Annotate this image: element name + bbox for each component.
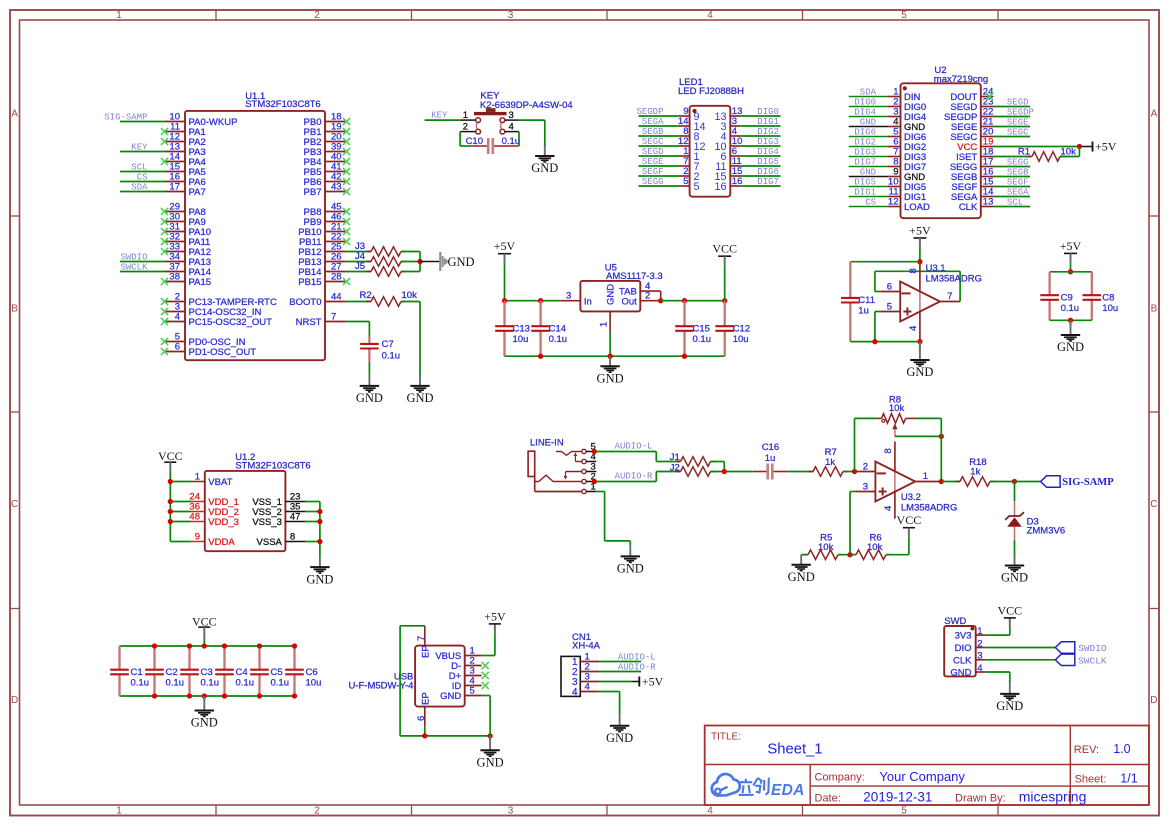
- svg-text:2: 2: [645, 290, 650, 301]
- svg-text:4: 4: [509, 122, 514, 133]
- svg-text:PB15: PB15: [298, 277, 321, 288]
- svg-text:C16: C16: [762, 442, 779, 453]
- svg-text:GND: GND: [606, 731, 633, 745]
- svg-text:SEGA: SEGA: [1007, 187, 1029, 197]
- svg-text:1: 1: [116, 10, 122, 21]
- svg-text:SEGC: SEGC: [1007, 127, 1029, 137]
- svg-text:U-F-M5DW-Y-4: U-F-M5DW-Y-4: [348, 681, 413, 692]
- svg-text:AUDIO-L: AUDIO-L: [615, 442, 653, 452]
- svg-text:VSS_3: VSS_3: [252, 517, 282, 528]
- svg-text:DIG6: DIG6: [757, 167, 779, 177]
- svg-text:7: 7: [947, 291, 952, 302]
- svg-text:SEGF: SEGF: [642, 167, 664, 177]
- svg-text:GND: GND: [950, 668, 971, 679]
- svg-text:GND: GND: [788, 570, 815, 584]
- svg-text:8: 8: [908, 268, 919, 273]
- svg-text:SEGC: SEGC: [642, 137, 664, 147]
- svg-text:D: D: [1150, 695, 1157, 706]
- svg-text:EP: EP: [421, 692, 432, 705]
- svg-text:STM32F103C8T6: STM32F103C8T6: [245, 99, 321, 110]
- svg-text:6: 6: [175, 342, 180, 353]
- svg-text:GND: GND: [448, 255, 475, 269]
- svg-text:6: 6: [416, 716, 427, 721]
- svg-text:DIG0: DIG0: [854, 97, 876, 107]
- svg-text:GND: GND: [531, 161, 558, 175]
- svg-text:GND: GND: [406, 391, 433, 405]
- svg-text:5: 5: [694, 181, 700, 193]
- svg-text:2019-12-31: 2019-12-31: [863, 790, 932, 805]
- svg-text:10k: 10k: [402, 290, 418, 301]
- svg-text:AUDIO-R: AUDIO-R: [615, 472, 653, 482]
- svg-text:3: 3: [977, 651, 982, 662]
- svg-text:PA7: PA7: [189, 187, 206, 198]
- svg-text:CS: CS: [137, 172, 148, 182]
- svg-text:GND: GND: [356, 391, 383, 405]
- svg-text:SEGD: SEGD: [1007, 97, 1029, 107]
- svg-text:CLK: CLK: [959, 202, 978, 213]
- svg-text:3: 3: [509, 110, 514, 121]
- svg-text:GND: GND: [597, 371, 624, 385]
- svg-text:GND: GND: [860, 167, 876, 177]
- svg-text:5: 5: [887, 301, 892, 312]
- svg-text:1/1: 1/1: [1120, 772, 1137, 786]
- svg-text:SDA: SDA: [131, 182, 148, 192]
- svg-text:SEGDP: SEGDP: [1007, 107, 1034, 117]
- svg-text:43: 43: [331, 182, 342, 193]
- svg-text:Drawn By:: Drawn By:: [955, 793, 1006, 805]
- svg-text:SEGF: SEGF: [1007, 177, 1029, 187]
- svg-text:DIG1: DIG1: [757, 117, 779, 127]
- svg-text:0.1u: 0.1u: [236, 677, 255, 688]
- svg-text:1: 1: [116, 806, 122, 817]
- svg-text:0.1u: 0.1u: [166, 677, 185, 688]
- svg-text:0.1u: 0.1u: [201, 677, 220, 688]
- svg-text:10u: 10u: [513, 334, 529, 345]
- svg-text:5: 5: [470, 686, 475, 697]
- svg-text:Sheet_1: Sheet_1: [767, 742, 822, 758]
- svg-text:DIG4: DIG4: [854, 107, 876, 117]
- svg-text:PA15: PA15: [189, 277, 212, 288]
- svg-text:GND: GND: [617, 562, 644, 576]
- svg-text:TITLE:: TITLE:: [711, 732, 741, 743]
- svg-text:4: 4: [572, 687, 578, 698]
- svg-text:SWDIO: SWDIO: [120, 252, 147, 262]
- svg-text:LM358ADRG: LM358ADRG: [926, 273, 983, 284]
- svg-text:DIG3: DIG3: [854, 147, 876, 157]
- svg-text:17: 17: [169, 182, 180, 193]
- svg-text:NRST: NRST: [296, 317, 322, 328]
- svg-text:AMS1117-3.3: AMS1117-3.3: [606, 271, 663, 282]
- svg-text:DIG3: DIG3: [757, 137, 779, 147]
- svg-text:13: 13: [983, 197, 994, 208]
- svg-text:0.1u: 0.1u: [1061, 303, 1080, 314]
- svg-text:4: 4: [977, 663, 982, 674]
- svg-text:A: A: [1151, 109, 1158, 120]
- svg-text:DIO: DIO: [955, 643, 972, 654]
- svg-text:SEGE: SEGE: [642, 157, 664, 167]
- svg-text:4: 4: [175, 312, 180, 323]
- svg-text:1: 1: [195, 472, 200, 483]
- svg-text:+5V: +5V: [1095, 140, 1117, 154]
- svg-text:4: 4: [908, 326, 919, 331]
- svg-text:VCC: VCC: [158, 449, 183, 463]
- svg-text:5: 5: [683, 176, 688, 187]
- svg-text:SEGB: SEGB: [642, 127, 664, 137]
- svg-text:4: 4: [883, 506, 894, 511]
- svg-text:4: 4: [585, 682, 590, 693]
- svg-text:AUDIO-R: AUDIO-R: [618, 662, 656, 672]
- svg-text:8: 8: [883, 448, 894, 453]
- svg-text:SWDIO: SWDIO: [1078, 643, 1107, 654]
- svg-text:STM32F103C8T6: STM32F103C8T6: [235, 460, 311, 471]
- svg-text:PC15-OSC32_OUT: PC15-OSC32_OUT: [189, 317, 273, 328]
- svg-text:D: D: [11, 695, 18, 706]
- svg-text:1k: 1k: [970, 466, 980, 477]
- svg-text:0.1u: 0.1u: [382, 350, 401, 361]
- svg-text:GND: GND: [1057, 340, 1084, 354]
- svg-text:SEGD: SEGD: [642, 147, 664, 157]
- svg-text:DIG7: DIG7: [854, 157, 876, 167]
- svg-text:SEGG: SEGG: [642, 177, 664, 187]
- svg-text:SWCLK: SWCLK: [120, 262, 148, 272]
- svg-text:C10: C10: [466, 136, 483, 147]
- svg-text:KEY: KEY: [431, 110, 448, 120]
- svg-text:16: 16: [714, 181, 726, 193]
- svg-text:47: 47: [290, 512, 301, 523]
- svg-text:16: 16: [732, 176, 743, 187]
- svg-text:10u: 10u: [1102, 303, 1118, 314]
- svg-text:2: 2: [977, 638, 982, 649]
- svg-text:3: 3: [508, 806, 514, 817]
- svg-text:Date:: Date:: [815, 793, 841, 805]
- svg-text:SEGE: SEGE: [1007, 117, 1029, 127]
- svg-text:5: 5: [901, 806, 907, 817]
- svg-text:+5V: +5V: [494, 239, 516, 253]
- svg-text:+5V: +5V: [642, 675, 664, 689]
- svg-text:5: 5: [901, 10, 907, 21]
- svg-text:DIG0: DIG0: [757, 107, 779, 117]
- svg-text:DIG2: DIG2: [757, 127, 779, 137]
- svg-text:1: 1: [599, 322, 610, 327]
- svg-text:A: A: [11, 109, 18, 120]
- svg-text:38: 38: [169, 272, 180, 283]
- svg-text:VCC: VCC: [997, 604, 1022, 618]
- svg-text:AUDIO-L: AUDIO-L: [618, 652, 656, 662]
- svg-text:VSSA: VSSA: [257, 537, 283, 548]
- svg-text:J5: J5: [355, 261, 365, 272]
- svg-text:DIG2: DIG2: [854, 137, 876, 147]
- svg-text:DIG1: DIG1: [854, 187, 876, 197]
- svg-text:8: 8: [290, 532, 295, 543]
- svg-text:ZMM3V6: ZMM3V6: [1027, 526, 1066, 537]
- svg-text:GND: GND: [477, 756, 504, 770]
- svg-text:SEGA: SEGA: [642, 117, 664, 127]
- svg-text:KEY: KEY: [131, 142, 148, 152]
- svg-text:C: C: [1150, 499, 1157, 510]
- svg-text:C7: C7: [382, 339, 394, 350]
- svg-text:PB7: PB7: [304, 187, 322, 198]
- svg-text:SEGG: SEGG: [1007, 157, 1029, 167]
- svg-text:1: 1: [463, 110, 468, 121]
- svg-text:DIG5: DIG5: [854, 177, 876, 187]
- svg-text:3: 3: [566, 290, 571, 301]
- svg-text:SCL: SCL: [1007, 197, 1023, 207]
- svg-text:Company:: Company:: [815, 771, 865, 783]
- svg-text:C: C: [11, 499, 18, 510]
- svg-text:LED FJ2088BH: LED FJ2088BH: [678, 86, 744, 97]
- svg-text:3: 3: [508, 10, 514, 21]
- svg-text:SEGDP: SEGDP: [636, 107, 663, 117]
- svg-text:1k: 1k: [825, 457, 835, 468]
- svg-text:4: 4: [707, 10, 713, 21]
- svg-text:44: 44: [331, 292, 342, 303]
- svg-text:1u: 1u: [765, 453, 776, 464]
- svg-text:GND: GND: [996, 699, 1023, 713]
- svg-text:Your Company: Your Company: [879, 769, 965, 784]
- svg-text:LINE-IN: LINE-IN: [530, 438, 564, 449]
- svg-text:2: 2: [863, 461, 868, 472]
- svg-text:VCC: VCC: [712, 242, 737, 256]
- svg-text:0.1u: 0.1u: [549, 334, 568, 345]
- svg-text:0.1u: 0.1u: [693, 334, 712, 345]
- svg-text:VCC: VCC: [897, 513, 922, 527]
- svg-text:U3.2: U3.2: [901, 492, 921, 503]
- svg-text:+5V: +5V: [909, 224, 931, 238]
- svg-text:DIG4: DIG4: [757, 147, 779, 157]
- svg-text:SIG-SAMP: SIG-SAMP: [104, 112, 147, 122]
- svg-text:PD1-OSC_OUT: PD1-OSC_OUT: [189, 347, 257, 358]
- svg-text:B: B: [1151, 304, 1158, 315]
- svg-text:12: 12: [888, 197, 899, 208]
- svg-text:BOOT0: BOOT0: [289, 297, 321, 308]
- svg-text:2: 2: [314, 10, 320, 21]
- svg-text:3V3: 3V3: [955, 631, 972, 642]
- svg-text:SIG-SAMP: SIG-SAMP: [1062, 477, 1114, 488]
- svg-text:DIG6: DIG6: [854, 127, 876, 137]
- svg-text:In: In: [584, 296, 592, 307]
- svg-text:4: 4: [707, 806, 713, 817]
- svg-text:Out: Out: [621, 296, 637, 307]
- svg-text:GND: GND: [306, 572, 333, 586]
- svg-text:6: 6: [887, 281, 892, 292]
- svg-text:GND: GND: [860, 117, 876, 127]
- svg-text:Sheet:: Sheet:: [1075, 773, 1107, 785]
- svg-text:B: B: [11, 304, 18, 315]
- svg-text:2: 2: [314, 806, 320, 817]
- svg-text:7: 7: [331, 312, 336, 323]
- svg-text:0.1u: 0.1u: [502, 136, 520, 147]
- svg-text:REV:: REV:: [1074, 744, 1099, 756]
- svg-text:GND: GND: [1001, 571, 1028, 585]
- svg-text:7: 7: [416, 636, 427, 641]
- svg-text:EDA: EDA: [771, 782, 805, 799]
- svg-text:DIG5: DIG5: [757, 157, 779, 167]
- svg-text:GND: GND: [606, 284, 617, 305]
- svg-text:DIG7: DIG7: [757, 177, 779, 187]
- svg-text:CLK: CLK: [953, 655, 972, 666]
- svg-text:1.0: 1.0: [1113, 742, 1130, 756]
- svg-text:2: 2: [463, 122, 468, 133]
- svg-text:VDD_3: VDD_3: [208, 517, 239, 528]
- svg-text:LOAD: LOAD: [904, 202, 930, 213]
- svg-text:28: 28: [331, 272, 342, 283]
- svg-text:+5V: +5V: [484, 609, 506, 623]
- svg-text:10u: 10u: [306, 677, 322, 688]
- svg-text:+5V: +5V: [1060, 239, 1082, 253]
- svg-text:GND: GND: [440, 691, 461, 702]
- svg-text:GND: GND: [191, 716, 218, 730]
- svg-text:9: 9: [195, 532, 200, 543]
- svg-text:CS: CS: [865, 197, 876, 207]
- svg-text:XH-4A: XH-4A: [572, 641, 601, 652]
- svg-text:SCL: SCL: [131, 162, 147, 172]
- svg-text:0.1u: 0.1u: [131, 677, 150, 688]
- svg-text:1u: 1u: [858, 306, 869, 317]
- svg-text:0.1u: 0.1u: [271, 677, 290, 688]
- svg-text:48: 48: [189, 512, 200, 523]
- svg-text:VDDA: VDDA: [208, 537, 235, 548]
- svg-text:SDA: SDA: [860, 87, 877, 97]
- svg-text:1: 1: [977, 626, 982, 637]
- svg-text:3: 3: [863, 481, 868, 492]
- svg-text:SWCLK: SWCLK: [1078, 655, 1107, 666]
- svg-text:R2: R2: [360, 290, 372, 301]
- svg-text:GND: GND: [906, 365, 933, 379]
- svg-text:1: 1: [923, 471, 928, 482]
- svg-text:EP: EP: [421, 645, 432, 658]
- svg-text:SEGB: SEGB: [1007, 167, 1029, 177]
- svg-text:10u: 10u: [733, 334, 749, 345]
- svg-text:micespring: micespring: [1019, 789, 1087, 805]
- svg-text:VBAT: VBAT: [208, 477, 232, 488]
